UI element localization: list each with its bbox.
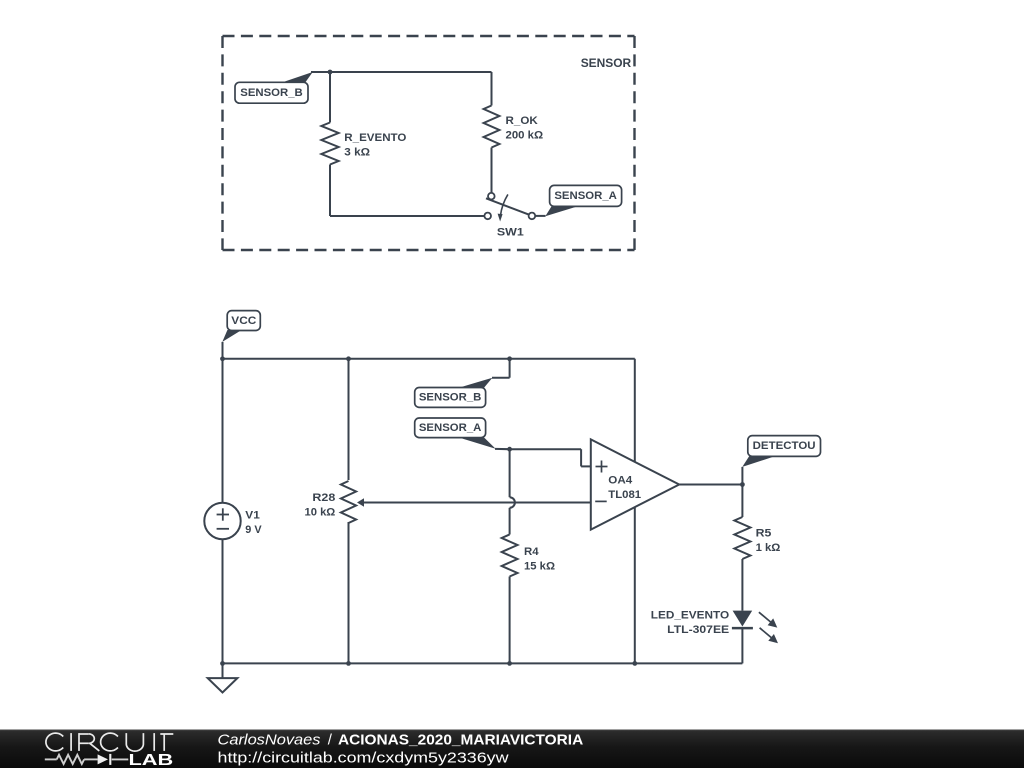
svg-text:LED_EVENTO: LED_EVENTO: [651, 610, 729, 622]
svg-text:SENSOR_B: SENSOR_B: [419, 392, 482, 404]
svg-text:1 kΩ: 1 kΩ: [756, 542, 781, 554]
svg-text:SENSOR: SENSOR: [581, 56, 632, 70]
svg-text:SENSOR_B: SENSOR_B: [240, 87, 303, 99]
svg-text:R4: R4: [524, 546, 539, 558]
svg-text:ACIONAS_2020_MARIAVICTORIA: ACIONAS_2020_MARIAVICTORIA: [338, 731, 583, 748]
svg-text:R_OK: R_OK: [506, 115, 539, 127]
svg-text:LTL-307EE: LTL-307EE: [667, 624, 729, 636]
svg-text:15 kΩ: 15 kΩ: [524, 560, 556, 572]
svg-text:TL081: TL081: [608, 489, 641, 501]
svg-text:DETECTOU: DETECTOU: [753, 440, 816, 452]
svg-text:SW1: SW1: [497, 227, 524, 239]
svg-text:200 kΩ: 200 kΩ: [506, 129, 544, 141]
svg-text:OA4: OA4: [608, 475, 632, 487]
svg-text:CarlosNovaes: CarlosNovaes: [218, 731, 322, 748]
svg-text:SENSOR_A: SENSOR_A: [554, 190, 617, 202]
svg-text:9 V: 9 V: [245, 524, 261, 536]
svg-text:R_EVENTO: R_EVENTO: [344, 132, 406, 144]
svg-text:V1: V1: [245, 509, 260, 521]
svg-text:LAB: LAB: [129, 752, 174, 768]
svg-text:http://circuitlab.com/cxdym5y2: http://circuitlab.com/cxdym5y2336yw: [218, 750, 509, 767]
svg-text:R5: R5: [756, 528, 772, 540]
svg-text:VCC: VCC: [231, 315, 256, 327]
svg-text:10 kΩ: 10 kΩ: [305, 507, 336, 519]
svg-text:R28: R28: [312, 492, 335, 504]
svg-text:SENSOR_A: SENSOR_A: [419, 422, 482, 434]
svg-text:3 kΩ: 3 kΩ: [344, 147, 370, 159]
